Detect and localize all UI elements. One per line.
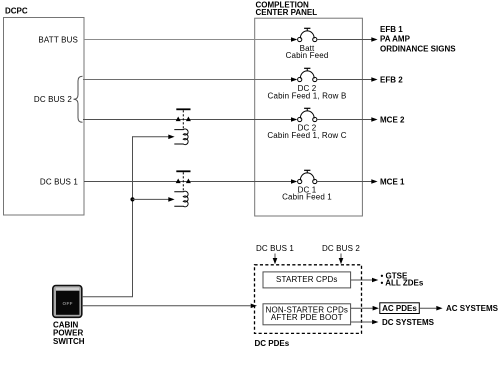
svg-text:Cabin Feed 1, Row C: Cabin Feed 1, Row C <box>267 131 346 140</box>
svg-text:DC BUS 2: DC BUS 2 <box>322 244 360 253</box>
wire switch to K1 coil <box>133 135 175 140</box>
circuit breaker CB2 DC 2 Cabin Feed 1 Row B <box>268 68 347 100</box>
svg-text:Cabin Feed 1, Row B: Cabin Feed 1, Row B <box>268 91 347 100</box>
circuit breaker CB1 Batt Cabin Feed <box>286 28 329 60</box>
wire DC BUS 1 drop <box>273 254 278 265</box>
svg-text:OFF: OFF <box>63 301 73 306</box>
svg-text:SWITCH: SWITCH <box>53 337 85 346</box>
box AC PDEs <box>380 303 420 314</box>
contactor K2 left contact <box>176 179 181 184</box>
wire CB2 to EFB2 <box>317 79 372 81</box>
svg-text:CENTER PANEL: CENTER PANEL <box>256 8 318 17</box>
box DC PDEs (dashed) <box>255 265 362 334</box>
contactor K2 (cabin feed 1) <box>174 171 191 206</box>
contactor K2 armature bar <box>176 170 190 172</box>
box completion center panel <box>255 18 363 216</box>
wire DC BUS 2 lower to CB3 <box>83 119 292 121</box>
wire DC BUS 1 to CB4 <box>84 181 292 183</box>
wire CB3 to MCE2 <box>317 119 372 121</box>
box STARTER CPDs <box>263 272 351 288</box>
svg-text:EFB 2: EFB 2 <box>380 75 403 84</box>
wire DC BUS 2 upper to CB2 <box>83 79 292 81</box>
wire switch riser <box>132 136 134 296</box>
svg-text:AC PDEs: AC PDEs <box>382 304 417 313</box>
svg-text:AC SYSTEMS: AC SYSTEMS <box>446 304 499 313</box>
wire CB4 to MCE1 <box>317 181 372 183</box>
wire switch to DC PDEs <box>82 304 257 309</box>
contactor K1 coil <box>174 129 188 145</box>
contactor K1 left contact <box>176 117 181 122</box>
wire CB1 to EFB1 <box>317 39 372 41</box>
svg-text:Cabin Feed: Cabin Feed <box>286 51 329 60</box>
svg-text:DC BUS 2: DC BUS 2 <box>34 95 72 104</box>
box DCPC <box>4 18 85 216</box>
svg-text:DC PDEs: DC PDEs <box>255 339 290 348</box>
wire STARTER CPDs output <box>351 278 379 283</box>
svg-text:STARTER CPDs: STARTER CPDs <box>276 275 338 284</box>
contactor K2 right contact <box>186 179 191 184</box>
svg-text:DC SYSTEMS: DC SYSTEMS <box>382 318 435 327</box>
svg-text:MCE 1: MCE 1 <box>380 177 405 186</box>
brace DC BUS 2 <box>74 76 83 122</box>
cabin power switch <box>53 286 82 318</box>
node junction to K2 coil <box>130 197 134 201</box>
svg-text:DC BUS 1: DC BUS 1 <box>40 177 78 186</box>
svg-text:AFTER PDE BOOT: AFTER PDE BOOT <box>271 313 343 322</box>
wire BATT BUS to CB1 <box>84 39 292 41</box>
contactor K1 armature bar <box>176 108 190 110</box>
wire junction to K2 coil <box>133 197 175 202</box>
contactor K1 right contact <box>186 117 191 122</box>
contactor K2 coil <box>174 191 188 207</box>
svg-text:PA AMP: PA AMP <box>380 35 411 44</box>
wire AC PDEs to AC SYSTEMS <box>419 306 442 311</box>
circuit breaker CB3 DC 2 Cabin Feed 1 Row C <box>267 108 346 140</box>
contactor K2 dashed link <box>182 172 184 192</box>
svg-text:Cabin Feed 1: Cabin Feed 1 <box>282 192 332 201</box>
svg-text:BATT BUS: BATT BUS <box>38 35 78 44</box>
contactor K1 (cabin feed 1 row C) <box>174 109 191 144</box>
box NON-STARTER CPDs <box>263 304 351 325</box>
wire to DC SYSTEMS <box>351 320 379 325</box>
svg-text:EFB 1: EFB 1 <box>380 25 403 34</box>
wire DC BUS 2 drop <box>339 254 344 265</box>
svg-text:MCE 2: MCE 2 <box>380 115 405 124</box>
svg-text:ORDINANCE SIGNS: ORDINANCE SIGNS <box>380 45 456 54</box>
contactor K1 dashed link <box>182 110 184 129</box>
svg-text:DCPC: DCPC <box>5 7 28 16</box>
circuit breaker CB4 DC 1 Cabin Feed 1 <box>282 170 332 201</box>
wire switch upper output <box>82 296 133 298</box>
svg-text:DC BUS 1: DC BUS 1 <box>256 244 294 253</box>
svg-text:• ALL ZDEs: • ALL ZDEs <box>381 278 424 287</box>
wire to AC PDEs <box>351 306 379 311</box>
